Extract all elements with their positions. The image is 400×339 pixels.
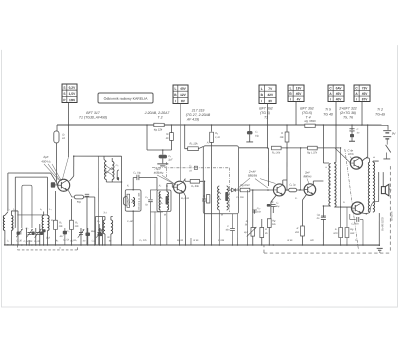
bus junction dots [7, 244, 9, 246]
diode D1 [231, 188, 235, 192]
wire link y156 [74, 155, 122, 157]
title box Odbiornik radiowy KARELIA [98, 93, 153, 103]
resistor R6 [188, 147, 199, 151]
electrolytic C17 [249, 125, 251, 131]
svg-text:R₄: R₄ [74, 239, 77, 242]
ground G [377, 247, 383, 249]
svg-text:R: R [265, 228, 267, 231]
svg-text:10μ: 10μ [255, 135, 260, 138]
svg-text:R₈: R₈ [215, 132, 218, 135]
svg-text:10%: 10% [348, 152, 354, 156]
svg-text:I: I [356, 97, 357, 101]
svg-text:BFT 352: BFT 352 [300, 107, 313, 111]
svg-text:(2×TG 38): (2×TG 38) [340, 111, 356, 115]
wire x94 down [94, 197, 96, 245]
wire y215 link [17, 214, 48, 216]
resistor R3 [70, 199, 72, 220]
svg-text:(TG 5): (TG 5) [260, 111, 270, 115]
svg-text:C₅ 10μ: C₅ 10μ [133, 171, 141, 174]
cap C15 [136, 175, 138, 180]
wire x98 vertical [98, 156, 100, 228]
trimmer C1 [17, 231, 21, 233]
trimmer square [194, 166, 197, 169]
coil L5 cross ticks [105, 165, 113, 170]
wire L6 to x121 [114, 181, 122, 183]
page border [1, 45, 397, 307]
cap C10 [85, 232, 90, 236]
svg-text:R₉ 2,2k: R₉ 2,2k [181, 197, 190, 200]
cap C14 [98, 228, 100, 231]
svg-text:T1 (TG30, AF450): T1 (TG30, AF450) [79, 115, 107, 119]
cap C16 [203, 181, 205, 199]
svg-text:S: S [63, 92, 65, 96]
svg-text:465kHz: 465kHz [154, 171, 164, 175]
cap C18 [253, 210, 255, 214]
connector box P4 [288, 85, 304, 102]
coil L11 [227, 186, 229, 210]
svg-text:C₄: C₄ [26, 227, 29, 230]
cap C13 bracket [117, 170, 119, 180]
cap C5 blob [42, 229, 45, 232]
svg-text:F₁: F₁ [127, 184, 129, 187]
svg-text:2µF: 2µF [42, 155, 48, 159]
cap C23 [231, 214, 233, 229]
wire F2 top lead [156, 177, 158, 190]
wire top loop B [15, 176, 47, 178]
dash-dot link diagonal [345, 149, 359, 250]
transformer Tr5 secondary [334, 164, 336, 208]
svg-text:Cₐ: Cₐ [189, 165, 192, 167]
wire x102 down [101, 217, 103, 245]
svg-text:C₅ 17k: C₅ 17k [139, 239, 147, 242]
transistor T1 [58, 179, 70, 191]
svg-text:3nμ: 3nμ [275, 205, 280, 208]
coil L9 [167, 192, 169, 211]
wire T6 emitter [362, 212, 367, 215]
wire x133 lower [132, 211, 134, 245]
connector box P2 [173, 85, 188, 104]
svg-text:2μF: 2μF [167, 158, 173, 161]
trimmer bracket F1 [123, 197, 126, 206]
svg-text:13V: 13V [296, 86, 303, 90]
svg-text:4n7: 4n7 [59, 235, 64, 238]
svg-text:TG-49: TG-49 [375, 113, 385, 117]
cap C24 [351, 125, 353, 129]
svg-text:w: w [373, 156, 375, 159]
dashed feedback h [264, 252, 390, 254]
svg-text:2ₙ: 2ₙ [334, 228, 337, 231]
wire trim stubs [25, 228, 27, 245]
resistor R9 in bus [154, 123, 164, 126]
svg-text:L: L [261, 87, 263, 91]
svg-text:Rg 780Ω: Rg 780Ω [304, 119, 316, 123]
wire x211 inside F3 [211, 146, 213, 245]
svg-text:Cₑ 65n: Cₑ 65n [351, 223, 359, 226]
svg-text:1,5V: 1,5V [69, 92, 76, 96]
filter box F2 [157, 190, 171, 212]
wire T1 emitter [68, 190, 74, 197]
svg-text:Rg 2032: Rg 2032 [240, 184, 250, 187]
wire P2 down [179, 103, 181, 180]
cap C22 [349, 214, 351, 219]
svg-text:I: I [175, 99, 176, 103]
cap C20 [267, 204, 271, 207]
svg-text:40n: 40n [225, 229, 230, 232]
svg-text:R₆ 12k: R₆ 12k [189, 141, 198, 145]
svg-text:2×BFT 322: 2×BFT 322 [338, 107, 356, 111]
cap C12 [98, 233, 103, 236]
resistor R5 [171, 125, 173, 133]
svg-text:40V: 40V [180, 87, 187, 91]
transistor T5 [350, 157, 362, 169]
second rail [198, 146, 203, 148]
top supply bus [57, 124, 154, 126]
resistor R15 [260, 228, 264, 238]
switch W1 [386, 145, 391, 153]
svg-text:2k2: 2k2 [45, 236, 51, 239]
svg-text:Tr 2: Tr 2 [377, 108, 383, 112]
svg-text:87V: 87V [362, 97, 369, 101]
battery B1 [383, 130, 391, 132]
svg-text:42V: 42V [267, 93, 274, 97]
wire x237 down [236, 214, 238, 245]
svg-text:W₁: W₁ [388, 188, 391, 191]
svg-text:Cₖ 10n: Cₖ 10n [236, 196, 244, 199]
svg-text:J-20AB, 2-20A7: J-20AB, 2-20A7 [144, 111, 171, 115]
svg-text:6k8: 6k8 [91, 230, 96, 233]
svg-text:R: R [297, 227, 299, 230]
resistor R2 [54, 191, 56, 220]
wire Tr5 sec bottom [334, 206, 339, 208]
trimmer C2 [27, 232, 31, 234]
svg-text:4g 12k: 4g 12k [154, 127, 163, 131]
electrolytic C7 [74, 195, 83, 199]
svg-text:C₉: C₉ [145, 196, 148, 199]
svg-text:C₈: C₈ [92, 239, 95, 242]
svg-text:C₄: C₄ [97, 220, 100, 223]
trimmer C3 [36, 232, 40, 234]
wire P1 down [68, 102, 70, 125]
resistor R7 [185, 180, 190, 182]
wire x367 from bus [367, 125, 369, 157]
transformer Tr5 primary [329, 164, 331, 207]
filter box F1 [125, 190, 141, 211]
svg-text:Rg 1,37k: Rg 1,37k [307, 152, 318, 155]
svg-text:73V: 73V [362, 86, 369, 90]
svg-text:I: I [330, 97, 331, 101]
antenna coil L2 [11, 215, 13, 230]
svg-text:F₂: F₂ [159, 184, 161, 187]
svg-text:AF 419): AF 419) [186, 117, 199, 121]
svg-text:R₂: R₂ [56, 240, 59, 242]
cap C6 blob [63, 231, 67, 235]
connector box P3 [259, 85, 276, 104]
wire top loop A [8, 172, 51, 174]
core slug F1 [127, 194, 130, 207]
svg-text:400·H₀: 400·H₀ [41, 159, 51, 163]
svg-text:Gl 8Ω W: Gl 8Ω W [390, 211, 393, 221]
wire T2 base [171, 183, 173, 187]
speaker G1 [381, 187, 385, 194]
svg-text:F₃: F₃ [207, 142, 209, 145]
wire x287 col [286, 142, 288, 190]
wire T1 collector up [73, 156, 75, 176]
svg-text:R: R [281, 132, 283, 135]
resistor R14 [286, 125, 288, 132]
wire choke to base [55, 143, 57, 183]
svg-text:L₄: L₄ [49, 208, 51, 211]
svg-text:L₂: L₂ [13, 208, 15, 211]
wire x160 down [160, 211, 162, 245]
wire x133 upper [132, 177, 134, 189]
svg-text:L₁: L₁ [7, 240, 9, 242]
coil L7 [133, 198, 135, 207]
resistor R19 [345, 228, 349, 238]
wire T4 collector [312, 181, 314, 185]
svg-text:10n: 10n [257, 211, 262, 214]
svg-text:M: M [221, 214, 223, 217]
svg-text:40V: 40V [336, 97, 343, 101]
svg-text:I: I [290, 97, 291, 101]
svg-text:T 2: T 2 [157, 115, 162, 119]
electrolytic C19 [289, 188, 297, 192]
svg-text:10N: 10N [69, 98, 76, 102]
wire speaker bottom curve [370, 202, 379, 213]
svg-text:880/84: 880/84 [248, 174, 258, 178]
svg-text:(TG-5): (TG-5) [302, 111, 312, 115]
svg-text:45V: 45V [336, 92, 343, 96]
svg-text:870: 870 [333, 232, 338, 235]
wire bus start down [56, 125, 58, 131]
pointer lines diodes [237, 178, 250, 189]
svg-text:C₇ 80: C₇ 80 [127, 220, 134, 223]
svg-text:C 16k: C 16k [218, 239, 225, 242]
svg-text:C₅: C₅ [67, 230, 70, 233]
svg-text:(TG 27, 2-20AB: (TG 27, 2-20AB [186, 113, 211, 117]
wire P6 down [361, 102, 363, 126]
svg-text:Odbiornik radiowy KARELIA: Odbiornik radiowy KARELIA [104, 97, 148, 101]
transformer Tr1b [111, 220, 113, 234]
cap C8 [84, 196, 95, 198]
resistor R17 [301, 226, 305, 236]
dashed feedback v [389, 166, 391, 253]
svg-text:R 4k: R 4k [288, 239, 294, 242]
svg-text:Cₑ 2μ: Cₑ 2μ [289, 184, 296, 187]
svg-text:I: I [261, 99, 262, 103]
coil L10 [218, 186, 220, 210]
resistor R16 rail [308, 146, 318, 150]
wire bus to Tr5 [322, 125, 324, 163]
wire T3 collector [282, 180, 284, 185]
svg-text:BFT 317: BFT 317 [86, 111, 100, 115]
wire T6 base stub [340, 206, 351, 208]
svg-text:8Ω: 8Ω [310, 239, 313, 242]
svg-text:Tr: Tr [355, 239, 357, 242]
filter box F3 [203, 146, 238, 214]
svg-text:880Hz: 880Hz [303, 174, 312, 178]
resistor R8 [211, 125, 213, 132]
pointer lines C4 [44, 164, 59, 180]
svg-text:C₁ 30: C₁ 30 [16, 239, 22, 242]
svg-text:0,2V: 0,2V [69, 86, 76, 90]
transistor T2 [174, 181, 186, 193]
svg-text:R₇ 30k: R₇ 30k [191, 184, 199, 188]
antenna coil L1 [3, 215, 5, 230]
svg-text:R₆ 2k: R₆ 2k [177, 239, 184, 242]
resistor R10 [206, 195, 209, 203]
svg-text:R₁: R₁ [51, 219, 54, 222]
connector box P1 (measurement table) [62, 84, 77, 103]
wire y156 corner down [120, 156, 122, 245]
wire P3 down [267, 104, 269, 126]
dash-dot screen line [152, 167, 229, 169]
svg-text:L₃: L₃ [40, 208, 42, 211]
wire T4 base [300, 189, 304, 191]
wire T2 emitter [179, 193, 181, 245]
svg-text:1,1k: 1,1k [215, 136, 220, 139]
switch end bar [383, 158, 390, 160]
wire gang bracket [22, 185, 32, 228]
svg-text:50µ: 50µ [77, 201, 82, 204]
svg-text:L: L [174, 87, 176, 91]
coil L5 [104, 161, 106, 179]
transformer Tr2 secondary [373, 162, 375, 212]
resistor R18 [339, 228, 343, 238]
transistor T4 [304, 184, 316, 196]
svg-text:R 4k: R 4k [194, 239, 200, 242]
wire bus end [378, 213, 380, 245]
svg-text:45V: 45V [362, 92, 369, 96]
svg-text:S: S [63, 86, 65, 90]
wire L10 bottom lead [218, 210, 220, 245]
coil L8 [159, 192, 161, 211]
wire T5 collector arc [363, 158, 370, 162]
wire bus to battery [387, 125, 389, 130]
misc junction dots [162, 149, 164, 151]
bottom ground bus [4, 244, 380, 246]
wire rect with cap [150, 190, 163, 245]
wire x247 down [246, 190, 248, 245]
transistor T6 [351, 202, 363, 214]
svg-text:0AV: 0AV [336, 86, 343, 90]
wire T3 emitter [271, 196, 276, 203]
resistor R13 [267, 219, 271, 228]
trimmer C9 [79, 232, 83, 234]
cap C21 [321, 215, 326, 217]
svg-text:Obwód p.cz. 465: Obwód p.cz. 465 [139, 192, 141, 210]
electrolytic C14b [162, 150, 164, 155]
svg-text:C₆ 5k: C₆ 5k [63, 238, 70, 241]
svg-text:M: M [164, 213, 166, 216]
coupling cap C4 blob [51, 182, 55, 187]
svg-text:L₁: L₁ [7, 208, 9, 211]
dash-dot core F2 [165, 162, 167, 177]
svg-text:Cₓ: Cₓ [255, 131, 258, 134]
resistor R12 [272, 146, 282, 150]
svg-text:217 319: 217 319 [191, 108, 205, 112]
wire x147 down [146, 125, 148, 150]
potentiometer P [251, 228, 255, 237]
transistor T3 [273, 184, 285, 196]
wire T2 collector [183, 179, 185, 182]
wire L2 top [11, 210, 18, 212]
svg-text:T5, T6: T5, T6 [343, 116, 353, 120]
svg-text:650: 650 [350, 232, 355, 235]
svg-text:BFT 352: BFT 352 [259, 107, 272, 111]
wire F2 bottom leads [154, 211, 156, 245]
wire P5 down [335, 102, 337, 126]
transformer Tr2 primary [368, 162, 370, 212]
osc coil L4 [47, 215, 49, 230]
wire speaker top [372, 161, 374, 162]
wire x98 down [98, 231, 100, 245]
coil L6 [112, 161, 114, 179]
svg-text:Do 85/122Ω: Do 85/122Ω [381, 217, 384, 231]
resistor R21 in bus [305, 124, 315, 127]
choke Dl1 [54, 131, 59, 143]
connector box P5 [328, 85, 344, 102]
svg-text:TG 40: TG 40 [323, 113, 333, 117]
trimmer C11 [97, 232, 101, 234]
wire T4 emitter [302, 195, 306, 201]
svg-text:C₆: C₆ [116, 164, 119, 167]
svg-text:12V: 12V [180, 93, 187, 97]
wire T5 base [335, 148, 350, 163]
transformer Tr1a [103, 220, 105, 234]
resistor R11 [240, 188, 250, 192]
svg-text:Tr 5: Tr 5 [325, 108, 331, 112]
wire T3 base [268, 189, 273, 191]
dashed gang link [16, 245, 18, 250]
top bus dots [68, 124, 70, 126]
wire P4 down [295, 102, 297, 126]
svg-text:45V: 45V [296, 92, 303, 96]
svg-text:4μ7: 4μ7 [244, 231, 249, 234]
wire bias rail [339, 148, 341, 245]
svg-text:C₂ 4÷20: C₂ 4÷20 [24, 240, 33, 243]
svg-text:L: L [290, 86, 292, 90]
stub x191 [190, 238, 192, 245]
ground bar C14b [157, 163, 168, 165]
connector box P6 [354, 85, 370, 102]
osc coil L3 [42, 215, 44, 230]
svg-text:R₁₂ 20k: R₁₂ 20k [272, 152, 281, 155]
